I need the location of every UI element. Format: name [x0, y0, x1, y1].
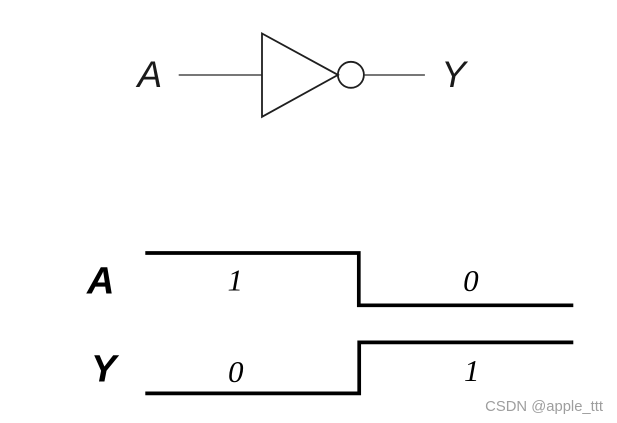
svg-text:0: 0: [463, 263, 479, 298]
svg-text:1: 1: [228, 263, 244, 298]
svg-text:A: A: [136, 54, 163, 95]
svg-text:Y: Y: [91, 349, 120, 391]
svg-text:Y: Y: [441, 54, 468, 95]
waveform Y: low then high: [145, 342, 573, 393]
wire: inverter output to Y: [365, 74, 425, 76]
inverter U1 triangle: [262, 34, 338, 117]
wire: input A to inverter: [179, 74, 262, 76]
inverter U1 output bubble: [338, 62, 364, 88]
svg-text:A: A: [86, 261, 114, 303]
svg-text:CSDN @apple_ttt: CSDN @apple_ttt: [485, 399, 603, 415]
svg-text:1: 1: [464, 353, 480, 388]
svg-text:0: 0: [228, 354, 244, 389]
waveform A: high then low: [145, 253, 573, 305]
